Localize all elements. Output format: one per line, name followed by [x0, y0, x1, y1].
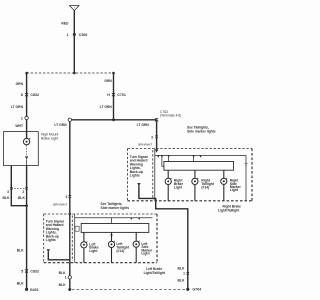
- svg-text:LT GRN: LT GRN: [54, 123, 67, 127]
- bulb high mount brake light: [23, 138, 30, 145]
- svg-text:8: 8: [21, 93, 23, 97]
- internal feed line right assembly: [155, 155, 248, 200]
- svg-text:Lights: Lights: [46, 238, 56, 242]
- arrow into right assembly: [155, 149, 158, 152]
- bus bar left assembly: [81, 224, 149, 233]
- label right brake light: [174, 179, 183, 190]
- svg-text:Side marker lights: Side marker lights: [187, 129, 216, 133]
- node center splice: [73, 72, 76, 75]
- dashed splice bus wire: [27, 72, 114, 74]
- label High Mount Brake Light: [41, 132, 58, 140]
- wire: feed from top, RED: [73, 11, 75, 73]
- svg-text:1: 1: [65, 276, 67, 280]
- wire: left branch GRN down to high mount brake light: [26, 73, 28, 132]
- connector C701 pin H: [107, 93, 126, 97]
- label left side marker light: [141, 242, 153, 256]
- node right splice: [112, 72, 115, 75]
- svg-text:GRN: GRN: [104, 79, 112, 83]
- wire: right branch GRN down: [113, 73, 115, 120]
- wire: pin 3 lead below box: [11, 166, 26, 206]
- right taillight assembly box: [128, 149, 253, 201]
- wire: ground run right assembly: [139, 186, 188, 290]
- pin labels: [7, 190, 24, 194]
- connector pin 1 right ground: [183, 272, 189, 276]
- svg-text:Light/Taillight: Light/Taillight: [218, 209, 240, 213]
- wire: down from C762 to right taillight assembly: [156, 121, 158, 149]
- pin mark 3: [10, 187, 13, 190]
- svg-text:(#14): (#14): [201, 185, 209, 189]
- svg-text:Light/Taillight: Light/Taillight: [144, 271, 166, 275]
- ground G401: [25, 288, 39, 292]
- connector C762: [155, 110, 182, 121]
- pin 3 connector left: [65, 195, 71, 199]
- label See Taillights left: [101, 202, 130, 210]
- svg-text:BLK: BLK: [18, 196, 25, 200]
- connector C832 pin 8: [21, 93, 39, 97]
- svg-text:1: 1: [183, 272, 185, 276]
- svg-text:BLK: BLK: [178, 266, 185, 270]
- connector single pin (ring): [68, 118, 71, 121]
- svg-text:G704: G704: [192, 287, 201, 291]
- svg-text:BRN/WHT: BRN/WHT: [138, 143, 152, 147]
- arrow to turn signal circuit left: [47, 249, 50, 252]
- svg-text:BRN/WHT: BRN/WHT: [53, 203, 67, 207]
- svg-text:1: 1: [21, 116, 23, 120]
- connector C832 pin 5: [21, 269, 39, 273]
- connector pin 1 left ground: [65, 276, 72, 280]
- svg-text:C701: C701: [117, 93, 126, 97]
- bulb left taillight: [108, 232, 115, 262]
- svg-text:5: 5: [21, 270, 23, 274]
- svg-text:G401: G401: [30, 288, 39, 292]
- bulb right side marker light: [221, 170, 228, 201]
- label left taillight: [116, 242, 129, 253]
- label left brake light/taillight: [144, 267, 166, 275]
- svg-text:LT GRN: LT GRN: [100, 105, 113, 109]
- svg-text:LT GRN: LT GRN: [137, 123, 150, 127]
- svg-text:GRN: GRN: [16, 82, 24, 86]
- dashed internal circuit: [26, 145, 28, 156]
- page connector triangle (circuit continuation): [70, 6, 79, 11]
- svg-text:WHT: WHT: [15, 124, 23, 128]
- svg-text:(#14): (#14): [116, 249, 124, 253]
- svg-text:3: 3: [65, 195, 67, 199]
- label See Taillights right: [187, 125, 216, 133]
- wire into bulb: [26, 132, 28, 139]
- svg-text:Light: Light: [89, 249, 98, 253]
- svg-text:BLK: BLK: [17, 248, 24, 252]
- high mount brake light box U1: [4, 132, 39, 166]
- turn signal dashed box left: [44, 214, 73, 263]
- arrow into left assembly: [68, 213, 71, 216]
- label right side marker light: [230, 179, 242, 193]
- arrow internal: [25, 156, 28, 159]
- connector pin 1 (bulb socket): [21, 116, 28, 120]
- svg-text:3: 3: [7, 190, 9, 194]
- label right taillight: [201, 179, 214, 190]
- label left brake light: [89, 242, 98, 253]
- ground G704: [186, 287, 201, 291]
- label turn signal right: [130, 155, 148, 178]
- svg-text:RED: RED: [61, 22, 69, 26]
- svg-text:BLK: BLK: [17, 282, 24, 286]
- dashed ground link: [72, 289, 186, 291]
- wire: pin 2 lead below box down to ground: [26, 166, 28, 290]
- label turn signal left: [46, 220, 64, 243]
- svg-text:H: H: [107, 93, 110, 97]
- svg-text:Light: Light: [174, 185, 183, 189]
- svg-text:3: 3: [151, 135, 153, 139]
- bulb left brake light: [81, 232, 88, 262]
- svg-text:BLK: BLK: [59, 271, 66, 275]
- svg-text:(Terminals 4-6): (Terminals 4-6): [160, 114, 181, 118]
- node left splice: [25, 72, 28, 75]
- svg-text:C306: C306: [79, 33, 88, 37]
- wire: left feed down from ring connector: [69, 122, 71, 290]
- connector stub on left assembly edge: [75, 226, 79, 231]
- bus bar right assembly: [164, 162, 234, 171]
- bulb left side marker light: [133, 232, 140, 262]
- svg-text:2: 2: [22, 190, 24, 194]
- node T junction: [112, 118, 115, 121]
- node left assembly ground junction: [68, 288, 71, 291]
- svg-text:C832: C832: [30, 93, 39, 97]
- svg-text:Brake Light: Brake Light: [41, 136, 58, 140]
- bulb right brake light: [165, 170, 172, 201]
- node join below high mount: [25, 204, 28, 207]
- pin 3 connector right: [151, 135, 158, 139]
- connector line (dashed) at high mount pins: [11, 187, 26, 189]
- svg-text:Lights: Lights: [130, 174, 140, 178]
- pin mark 2: [25, 187, 28, 190]
- wire: horizontal run LT GRN: [72, 119, 157, 121]
- svg-text:LT GRN: LT GRN: [11, 105, 24, 109]
- svg-text:Light: Light: [141, 252, 150, 256]
- svg-text:Side marker lights: Side marker lights: [101, 206, 130, 210]
- svg-text:C832: C832: [30, 270, 39, 274]
- wire: turn signal tap left: [48, 252, 70, 260]
- svg-text:BLK: BLK: [3, 196, 10, 200]
- svg-text:1: 1: [67, 33, 69, 37]
- arrow to turn signal circuit right: [137, 183, 140, 186]
- bulb right taillight: [192, 170, 199, 201]
- svg-text:Light: Light: [230, 188, 239, 192]
- internal feed line left assembly: [75, 218, 153, 238]
- svg-text:BLK: BLK: [59, 283, 66, 287]
- svg-text:BLK: BLK: [178, 279, 185, 283]
- connector C306 pin 1: [67, 33, 88, 37]
- turn signal dashed box right: [128, 149, 153, 201]
- left taillight assembly box: [44, 214, 157, 263]
- label right brake light/taillight: [218, 205, 241, 213]
- wire stub to box bottom: [26, 159, 28, 165]
